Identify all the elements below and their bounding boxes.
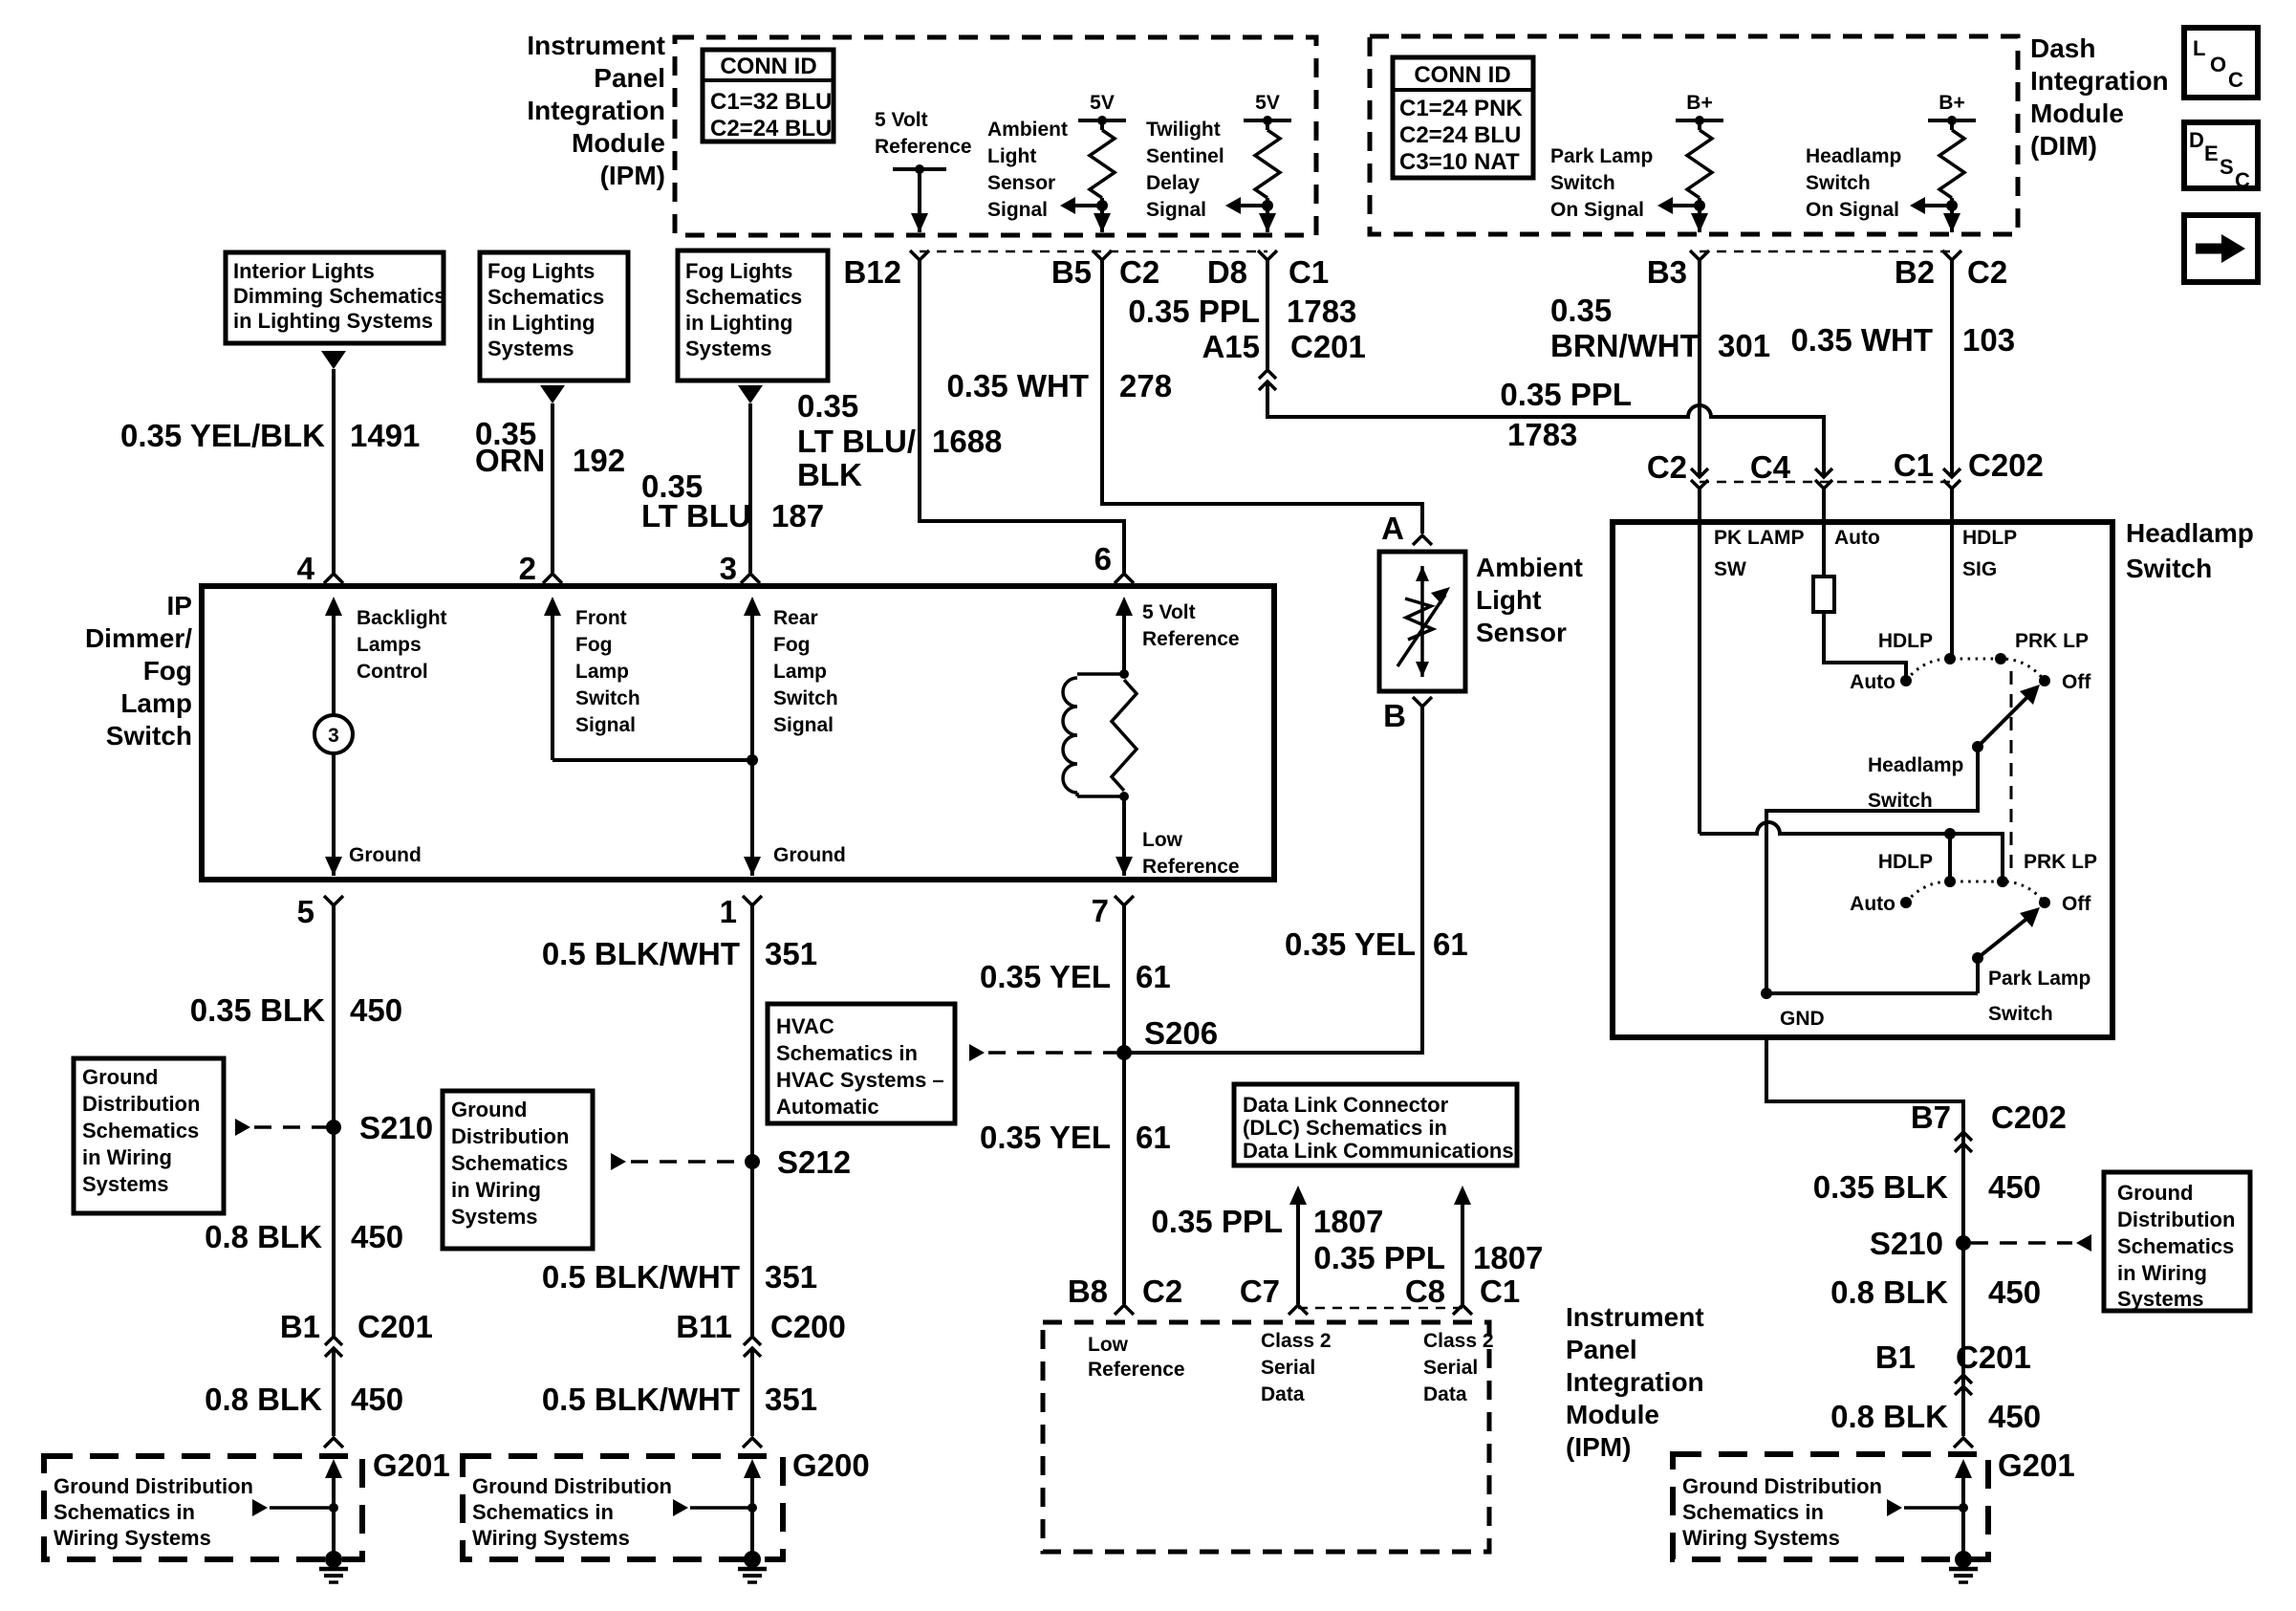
wire: dimmer to ground pin: [325, 753, 342, 876]
wire: IPM C1 twilight delay 0.35 PPL 1783 upper: [1266, 260, 1269, 369]
wire label 0.35 YEL | 61 (upper): [980, 959, 1171, 994]
svg-text:Sensor: Sensor: [987, 172, 1055, 194]
lamp: dimmer control element: [314, 715, 353, 753]
svg-text:1491: 1491: [350, 418, 420, 453]
svg-text:1688: 1688: [932, 424, 1002, 459]
svg-text:HVAC: HVAC: [776, 1014, 834, 1038]
pin label Class 2 Serial Data (C7): [1261, 1330, 1332, 1405]
svg-text:5V: 5V: [1090, 92, 1115, 114]
svg-text:Front: Front: [575, 607, 627, 629]
wire into G201 with arrow: [325, 1459, 342, 1559]
wire label 0.5 BLK/WHT | 351 (lower): [542, 1382, 817, 1417]
module box: IP Dimmer / Fog Lamp Switch: [202, 586, 1274, 880]
svg-text:B1: B1: [1875, 1339, 1916, 1375]
wire label 0.35 PPL / 1783 on horizontal run: [1500, 377, 1632, 452]
svg-text:61: 61: [1433, 926, 1468, 962]
svg-text:On Signal: On Signal: [1550, 199, 1644, 221]
svg-text:450: 450: [1988, 1274, 2041, 1310]
pin 6 arrow and 5 Volt Reference: [1116, 597, 1240, 674]
svg-text:Automatic: Automatic: [776, 1095, 879, 1119]
svg-text:C8: C8: [1405, 1274, 1445, 1309]
svg-text:C4: C4: [1750, 449, 1791, 485]
svg-text:5 Volt: 5 Volt: [875, 109, 928, 131]
svg-text:0.35 YEL: 0.35 YEL: [1285, 926, 1416, 962]
wire: low reference to pin 7: [1116, 796, 1133, 876]
connector half chevron at x=1326: [1258, 250, 1277, 260]
pin labels row: B12 B5 C2 D8 C1 B3 B2 C2: [843, 254, 2007, 290]
module box: Dash Integration Module (DIM): [1370, 36, 2018, 234]
icon box: forward arrow: [2184, 215, 2258, 282]
svg-text:Module: Module: [572, 128, 665, 158]
wire label 0.35 YEL/BLK | 1491: [120, 418, 420, 453]
connector line: DIM bottom in-line connector (dashed): [1700, 250, 1952, 253]
svg-text:Schematics in: Schematics in: [1682, 1500, 1824, 1524]
connector chevron above G201: [324, 1438, 343, 1448]
svg-text:B+: B+: [1686, 92, 1712, 114]
svg-text:C201: C201: [1956, 1339, 2031, 1375]
svg-text:in Wiring: in Wiring: [451, 1178, 541, 1202]
dashed link to splice S206: [969, 1044, 1116, 1061]
wire: pin 1 ground 0.5 BLK/WHT 351: [750, 905, 754, 1336]
svg-text:G201: G201: [1998, 1448, 2075, 1483]
svg-text:Sentinel: Sentinel: [1146, 145, 1224, 167]
wire label 0.35 YEL | 61 (sensor leg): [1285, 926, 1468, 962]
connector chevron pin 3: [741, 574, 760, 583]
svg-text:Ground Distribution: Ground Distribution: [472, 1474, 672, 1498]
svg-text:5: 5: [297, 894, 314, 929]
svg-text:Switch: Switch: [575, 687, 640, 709]
connector half chevron at x=2042: [1942, 250, 1961, 260]
svg-text:C1: C1: [1480, 1274, 1520, 1309]
svg-text:0.35 WHT: 0.35 WHT: [946, 368, 1089, 403]
wire label 0.35 PPL | 1807 (C7): [1151, 1204, 1383, 1239]
svg-text:Schematics: Schematics: [82, 1119, 199, 1143]
svg-text:0.35 PPL: 0.35 PPL: [1313, 1240, 1445, 1275]
svg-text:C1: C1: [1894, 447, 1934, 483]
svg-text:Schematics in: Schematics in: [472, 1500, 614, 1524]
wire label 0.8 BLK | 450 lower: [205, 1382, 403, 1417]
svg-text:HDLP: HDLP: [1962, 527, 2017, 549]
svg-text:CONN ID: CONN ID: [720, 54, 816, 79]
svg-text:in Wiring: in Wiring: [82, 1145, 172, 1169]
wire label 0.8 BLK | 450: [205, 1219, 403, 1254]
svg-text:Module: Module: [1566, 1400, 1659, 1429]
wire: 0.35 BLK 450 to S210: [1961, 1143, 1965, 1436]
svg-text:B3: B3: [1647, 254, 1687, 290]
svg-text:Park Lamp: Park Lamp: [1988, 968, 2090, 990]
svg-text:Switch: Switch: [1806, 172, 1871, 194]
svg-text:Serial: Serial: [1261, 1357, 1315, 1379]
resistor: IPM twilight sentinel pull-up, 5V: [1225, 92, 1291, 232]
svg-text:B2: B2: [1895, 254, 1935, 290]
wire: sensor B to S206 0.35 YEL 61: [1131, 707, 1422, 1053]
svg-text:SIG: SIG: [1962, 558, 1997, 580]
svg-text:Reference: Reference: [1142, 856, 1240, 878]
resistor: headlamp switch auto input (box symbol): [1813, 577, 1834, 612]
svg-text:B8: B8: [1068, 1274, 1108, 1309]
svg-text:C2: C2: [1967, 254, 2007, 290]
svg-text:Distribution: Distribution: [2117, 1208, 2235, 1231]
svg-text:D: D: [2189, 128, 2204, 152]
svg-text:Systems: Systems: [2117, 1287, 2204, 1311]
module box: Instrument Panel Integration Module (IPM), bottom: [1043, 1322, 1489, 1552]
svg-text:(IPM): (IPM): [600, 161, 665, 190]
svg-text:7: 7: [1092, 893, 1109, 928]
svg-text:Reference: Reference: [875, 136, 972, 158]
pin label: Twilight Sentinel Delay Signal: [1146, 119, 1224, 221]
module box: Headlamp Switch: [1613, 522, 2112, 1037]
wire label 0.35 BRN/WHT | 301: [1550, 293, 1770, 363]
svg-text:in Wiring: in Wiring: [2117, 1261, 2207, 1285]
svg-text:Control: Control: [357, 661, 428, 683]
wire: C1 into headlamp switch HDLP SIG: [1950, 489, 1954, 659]
wire label 0.35 WHT | 278: [946, 368, 1172, 403]
svg-text:Signal: Signal: [987, 199, 1048, 221]
svg-text:C: C: [2228, 68, 2243, 92]
wire: branch to lower HDLP contact: [1948, 834, 1952, 880]
svg-text:Integration: Integration: [1566, 1367, 1704, 1397]
wire: front fog lamp switch signal 0.35 ORN 192: [551, 403, 554, 573]
svg-text:61: 61: [1136, 1120, 1171, 1155]
dashed link from S210 to ground distribution box: [1971, 1234, 2091, 1252]
connector line dashed between C7 and C1: [1298, 1307, 1462, 1310]
connector half chevron at x=1153: [1093, 250, 1112, 260]
pin label Class 2 Serial Data (C1): [1423, 1330, 1494, 1405]
svg-text:Data Link Communications: Data Link Communications: [1243, 1139, 1514, 1163]
svg-text:Off: Off: [2062, 671, 2091, 693]
svg-text:C1: C1: [1289, 254, 1329, 290]
svg-text:5 Volt: 5 Volt: [1142, 601, 1196, 623]
wire label 0.35 WHT | 103: [1790, 322, 2015, 358]
svg-text:Ground: Ground: [451, 1098, 527, 1121]
svg-text:Switch: Switch: [1988, 1003, 2053, 1025]
svg-text:Schematics: Schematics: [451, 1151, 568, 1175]
svg-text:S206: S206: [1144, 1015, 1218, 1051]
svg-text:6: 6: [1094, 541, 1112, 577]
svg-text:0.35 WHT: 0.35 WHT: [1790, 322, 1933, 358]
wire label 0.8 BLK | 450 (right lower): [1830, 1399, 2041, 1434]
svg-text:Off: Off: [2062, 893, 2091, 915]
pin numbers 5 1 7: [297, 893, 1109, 929]
svg-text:Fog: Fog: [143, 656, 192, 686]
svg-text:C2: C2: [1142, 1274, 1182, 1309]
reference box: Interior Lights Dimming Schematics in Lighting Systems: [226, 252, 446, 343]
label: Park Lamp Switch (arm): [1988, 968, 2090, 1025]
wire: backlight lamps control 0.35 YEL/BLK 1491: [332, 369, 336, 573]
svg-text:Systems: Systems: [685, 337, 772, 360]
reference box: Ground Distribution Schematics in Wiring Systems (S210): [74, 1058, 224, 1213]
svg-text:0.35: 0.35: [1550, 293, 1612, 328]
svg-text:HDLP: HDLP: [1878, 851, 1933, 873]
svg-text:Serial: Serial: [1423, 1357, 1478, 1379]
svg-text:A: A: [1381, 511, 1404, 546]
wire label 0.5 BLK/WHT | 351 (middle): [542, 1259, 817, 1295]
svg-text:0.35: 0.35: [797, 388, 858, 424]
ground tap arrow inside G200: [673, 1499, 757, 1516]
svg-text:Panel: Panel: [1566, 1335, 1637, 1364]
icon box: LOC: [2184, 28, 2258, 98]
svg-text:C2: C2: [1119, 254, 1159, 290]
svg-text:B12: B12: [843, 254, 901, 290]
wire to G200: [750, 1348, 754, 1436]
pin label PK LAMP SW: [1714, 527, 1805, 580]
svg-text:61: 61: [1136, 959, 1171, 994]
svg-text:Ground: Ground: [773, 844, 846, 866]
svg-text:C3=10 NAT: C3=10 NAT: [1399, 149, 1520, 175]
svg-text:A15: A15: [1202, 329, 1260, 364]
svg-text:S210: S210: [1870, 1226, 1943, 1261]
connector half chevron at x=1778: [1690, 250, 1709, 260]
label: Headlamp Switch (arm): [1868, 754, 1963, 812]
svg-text:IP: IP: [167, 591, 192, 620]
svg-text:Dimmer/: Dimmer/: [85, 623, 192, 653]
lower rotary switch contacts Auto HDLP PRK LP Off: [1850, 851, 2097, 915]
splice S206: [1116, 1015, 1218, 1060]
svg-text:Lamp: Lamp: [575, 661, 629, 683]
triangle terminal under front fog box: [540, 385, 565, 403]
dashed detent link between switch decks: [2010, 671, 2013, 876]
svg-text:B7: B7: [1911, 1099, 1951, 1135]
svg-text:CONN ID: CONN ID: [1414, 62, 1510, 88]
svg-text:Instrument: Instrument: [527, 31, 665, 60]
connector chevron at A: [1413, 535, 1432, 545]
connector chevrons below box pins 5 1 7: [324, 896, 343, 905]
ground box: G200 Ground Distribution Schematics in Wiring Systems: [463, 1456, 783, 1559]
svg-text:On Signal: On Signal: [1806, 199, 1899, 221]
svg-text:351: 351: [765, 936, 817, 971]
svg-text:3: 3: [720, 551, 737, 586]
svg-text:0.35 BLK: 0.35 BLK: [190, 992, 325, 1028]
svg-text:Switch: Switch: [1550, 172, 1615, 194]
svg-text:S210: S210: [359, 1110, 433, 1145]
connector chevrons at C7 and C1: [1289, 1305, 1308, 1315]
connector chevron above G200: [743, 1438, 762, 1448]
svg-text:Data Link Connector: Data Link Connector: [1243, 1093, 1449, 1117]
svg-text:HDLP: HDLP: [1878, 630, 1933, 652]
connector chevron at IPM B8: [1115, 1305, 1134, 1315]
svg-text:Reference: Reference: [1142, 628, 1240, 650]
svg-text:Ground: Ground: [82, 1065, 158, 1089]
svg-text:L: L: [2193, 36, 2205, 60]
svg-text:Rear: Rear: [773, 607, 818, 629]
pin label HDLP SIG: [1962, 527, 2017, 580]
svg-text:Panel: Panel: [594, 63, 665, 93]
ground box: G201 (left) Ground Distribution Schematics in Wiring Systems: [44, 1456, 362, 1559]
wire: pin 5 ground 0.35 BLK 450: [332, 905, 336, 1336]
connector chevron pin 2: [543, 574, 562, 583]
resistor: DIM park lamp switch pull-up, B+: [1657, 92, 1723, 232]
icon box: DESC: [2184, 122, 2258, 192]
pin labels row C2 | C4 | C1 | C202: [1647, 447, 2044, 485]
svg-text:Class 2: Class 2: [1423, 1330, 1494, 1352]
svg-text:C7: C7: [1240, 1274, 1280, 1309]
connector chevron above G201 (right): [1954, 1438, 1973, 1448]
svg-text:192: 192: [573, 443, 625, 478]
svg-text:(DLC) Schematics in: (DLC) Schematics in: [1243, 1116, 1447, 1140]
pin label Low Reference: [1142, 829, 1240, 878]
svg-text:0.35 PPL: 0.35 PPL: [1128, 294, 1260, 329]
svg-text:0.5 BLK/WHT: 0.5 BLK/WHT: [542, 936, 740, 971]
svg-text:S212: S212: [777, 1144, 851, 1180]
dashed link to splice S210: [235, 1119, 327, 1136]
svg-text:0.8 BLK: 0.8 BLK: [1830, 1399, 1948, 1434]
svg-text:351: 351: [765, 1382, 817, 1417]
reference box: Fog Lights Schematics in Lighting Systems (rear): [678, 250, 828, 381]
svg-text:Schematics: Schematics: [685, 285, 802, 309]
svg-text:Systems: Systems: [487, 337, 574, 360]
svg-text:B5: B5: [1051, 254, 1092, 290]
wire: 0.8 BLK 450 to G201: [332, 1348, 336, 1436]
wire into G200 with arrow: [744, 1459, 761, 1559]
wire label 0.8 BLK | 450 (right upper): [1830, 1274, 2041, 1310]
ground symbol G200: [744, 1551, 761, 1568]
svg-text:B1: B1: [280, 1309, 320, 1344]
connector chevron at B: [1413, 697, 1432, 707]
svg-text:301: 301: [1718, 328, 1770, 363]
svg-text:1: 1: [720, 894, 737, 929]
svg-text:450: 450: [1988, 1399, 2041, 1434]
svg-text:Systems: Systems: [451, 1205, 538, 1229]
svg-text:Low: Low: [1088, 1334, 1129, 1356]
svg-text:G200: G200: [792, 1448, 870, 1483]
svg-text:(IPM): (IPM): [1566, 1432, 1631, 1462]
svg-text:0.8 BLK: 0.8 BLK: [205, 1382, 322, 1417]
svg-text:Light: Light: [1476, 585, 1541, 615]
ground symbol G201 (right): [1955, 1551, 1972, 1568]
connector ID table CONN ID (DIM): [1393, 57, 1533, 178]
junction dot on lower deck feed: [1944, 828, 1956, 839]
svg-text:S: S: [2220, 155, 2234, 179]
svg-text:BLK: BLK: [797, 457, 862, 492]
label: DIM module title: [2030, 33, 2169, 161]
wire: headlamp switch GND to B7 C202: [1766, 1037, 1963, 1144]
svg-text:Headlamp: Headlamp: [1868, 754, 1963, 776]
svg-text:278: 278: [1119, 368, 1172, 403]
svg-text:B11: B11: [676, 1309, 732, 1344]
svg-text:Signal: Signal: [1146, 199, 1206, 221]
wire label 0.35 PPL | 1783 / A15 | C201: [1128, 294, 1365, 364]
svg-text:Wiring Systems: Wiring Systems: [472, 1526, 630, 1550]
wire: rear fog lamp switch signal 0.35 LT BLU 187: [748, 403, 752, 573]
svg-text:2: 2: [519, 551, 536, 586]
svg-text:1783: 1783: [1507, 417, 1577, 452]
svg-text:Integration: Integration: [527, 96, 665, 125]
reference box: Ground Distribution Schematics in Wiring Systems (S212): [443, 1091, 593, 1249]
wire: class 2 serial data C1 0.35 PPL 1807: [1454, 1186, 1471, 1304]
svg-text:C1=24 PNK: C1=24 PNK: [1399, 96, 1523, 121]
wire: below resistor to Auto contact: [1824, 612, 1906, 679]
wire label 0.35 YEL | 61 (lower): [980, 1120, 1171, 1155]
svg-text:Class 2: Class 2: [1261, 1330, 1332, 1352]
pin 3 arrow and Rear Fog Lamp Switch Signal: [744, 597, 838, 876]
connector line: C202 harness connector (dashed): [1700, 481, 1952, 484]
wire label 0.35 PPL | 1807 (C1): [1313, 1240, 1543, 1275]
label: IP Dimmer/Fog Lamp Switch title: [85, 591, 192, 751]
resistor: DIM headlamp switch pull-up, B+: [1910, 92, 1976, 232]
svg-text:1783: 1783: [1287, 294, 1356, 329]
svg-text:0.35 YEL: 0.35 YEL: [980, 959, 1111, 994]
svg-text:1807: 1807: [1473, 1240, 1543, 1275]
in-line connector B7 | C202: [1911, 1099, 2067, 1152]
svg-text:Schematics: Schematics: [2117, 1234, 2234, 1258]
svg-text:0.5 BLK/WHT: 0.5 BLK/WHT: [542, 1259, 740, 1295]
svg-text:5V: 5V: [1255, 92, 1280, 114]
svg-text:Wiring Systems: Wiring Systems: [1682, 1526, 1840, 1550]
svg-text:(DIM): (DIM): [2030, 131, 2097, 161]
svg-text:Auto: Auto: [1850, 671, 1895, 693]
connector chevron pin 6: [1115, 574, 1134, 583]
svg-text:450: 450: [351, 1382, 403, 1417]
svg-text:Module: Module: [2030, 98, 2124, 128]
wire: DIM B2 headlamp switch on signal 0.35 WHT 103: [1950, 260, 1954, 475]
svg-text:Auto: Auto: [1850, 893, 1895, 915]
svg-text:Dimming Schematics: Dimming Schematics: [233, 284, 446, 308]
resistor: IPM ambient light sensor pull-up, 5V: [1060, 92, 1126, 232]
svg-text:Sensor: Sensor: [1476, 618, 1567, 647]
wire: class 2 serial data C7 0.35 PPL 1807: [1289, 1186, 1307, 1304]
svg-text:Schematics in: Schematics in: [776, 1041, 918, 1065]
svg-text:0.35 YEL: 0.35 YEL: [980, 1120, 1111, 1155]
svg-text:Park Lamp: Park Lamp: [1550, 145, 1653, 167]
svg-text:O: O: [2210, 53, 2226, 76]
svg-text:Fog Lights: Fog Lights: [487, 259, 595, 283]
svg-text:Instrument: Instrument: [1566, 1302, 1704, 1332]
svg-text:C: C: [2235, 168, 2250, 192]
svg-text:in Lighting Systems: in Lighting Systems: [233, 309, 433, 333]
wire: front fog joins rear fog: [552, 754, 758, 766]
switch arm: headlamp switch wiper to Off: [1972, 685, 2040, 752]
svg-text:Delay: Delay: [1146, 172, 1200, 194]
splice S212: [745, 1144, 851, 1180]
svg-text:in Lighting: in Lighting: [487, 311, 595, 335]
svg-text:Signal: Signal: [773, 714, 834, 736]
svg-text:Data: Data: [1261, 1383, 1305, 1405]
label: Headlamp Switch title: [2126, 518, 2254, 583]
wire into G201 right with arrow: [1955, 1459, 1972, 1559]
pin labels C7 C8 C1: [1240, 1274, 1520, 1309]
wire label 0.35 BLK | 450: [190, 992, 402, 1028]
svg-text:Fog Lights: Fog Lights: [685, 259, 792, 283]
svg-text:Distribution: Distribution: [451, 1124, 569, 1148]
wire: pin 7 low reference 0.35 YEL 61: [1122, 905, 1126, 1304]
svg-text:Wiring Systems: Wiring Systems: [54, 1526, 211, 1550]
reference box: Ground Distribution Schematics in Wiring Systems (right): [2104, 1172, 2250, 1311]
connector ID table CONN ID (IPM): [703, 50, 834, 142]
svg-text:Data: Data: [1423, 1383, 1467, 1405]
pin label: 5 Volt Reference (IPM): [875, 109, 972, 158]
wire: DIM B3 park lamp switch on signal 0.35 BRN/WHT 301: [1698, 260, 1701, 475]
svg-text:ORN: ORN: [475, 443, 545, 478]
wire: lower wiper to GND rail: [1976, 958, 1980, 993]
svg-text:Interior Lights: Interior Lights: [233, 259, 375, 283]
splice S210 (right): [1870, 1226, 1971, 1261]
svg-text:0.8 BLK: 0.8 BLK: [1830, 1274, 1948, 1310]
ground symbol G201 (left): [325, 1551, 342, 1568]
svg-text:0.35 PPL: 0.35 PPL: [1151, 1204, 1283, 1239]
svg-text:C2: C2: [1647, 449, 1687, 485]
triangle terminal under Interior Lights box: [321, 351, 346, 369]
svg-text:Headlamp: Headlamp: [2126, 518, 2254, 548]
reference box: Fog Lights Schematics in Lighting Systems (front): [480, 252, 628, 381]
wire: PK LAMP SW feed to lower deck with hop: [1700, 822, 2003, 880]
svg-text:Auto: Auto: [1834, 527, 1880, 549]
svg-text:C2=24 BLU: C2=24 BLU: [710, 116, 832, 142]
svg-text:Integration: Integration: [2030, 66, 2169, 96]
svg-text:450: 450: [351, 1219, 403, 1254]
svg-text:4: 4: [297, 551, 315, 586]
svg-text:0.35 BLK: 0.35 BLK: [1813, 1169, 1948, 1205]
svg-text:Twilight: Twilight: [1146, 119, 1221, 141]
